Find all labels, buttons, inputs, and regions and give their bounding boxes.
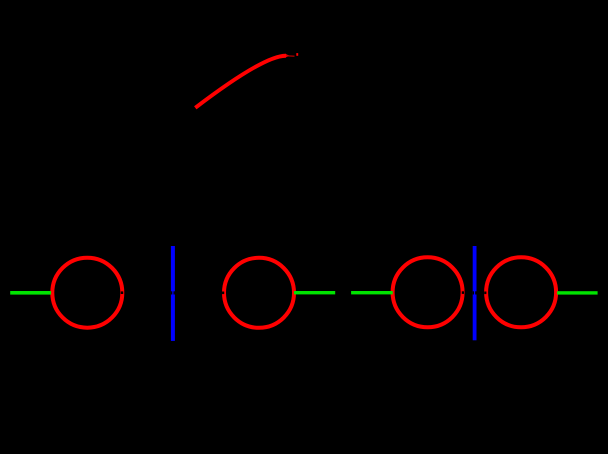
transformer T2 core bar (blue) xyxy=(473,246,477,340)
transformer T1 core bar (blue) xyxy=(171,246,175,341)
terminal notch (core 2 right) xyxy=(475,291,476,294)
terminal dot (T1 primary right) xyxy=(121,291,123,294)
terminal dot (T2 secondary left) xyxy=(484,292,486,295)
scope waveform trace (red) xyxy=(195,56,286,108)
trace cursor tick xyxy=(296,53,298,56)
terminal dot (T1 secondary left) xyxy=(222,292,224,295)
trace segment (thin, most recent) xyxy=(286,55,295,57)
wire: left lead xyxy=(10,291,51,295)
wire: right lead xyxy=(557,291,598,294)
terminal dot (T2 primary right) xyxy=(462,291,464,294)
terminal notch (core right) xyxy=(174,291,175,294)
transformer T2 primary winding xyxy=(393,257,463,327)
wire: T1 to T2 segment 1 xyxy=(294,291,335,294)
transformer T1 secondary winding xyxy=(224,258,294,328)
transformer T1 primary winding xyxy=(52,258,122,328)
terminal notch (core 2 left) xyxy=(473,291,474,294)
terminal notch (core left) xyxy=(171,291,172,294)
trace taper tip xyxy=(285,54,289,58)
wire: T1 to T2 segment 2 xyxy=(351,291,393,294)
transformer T2 secondary winding xyxy=(486,257,556,327)
